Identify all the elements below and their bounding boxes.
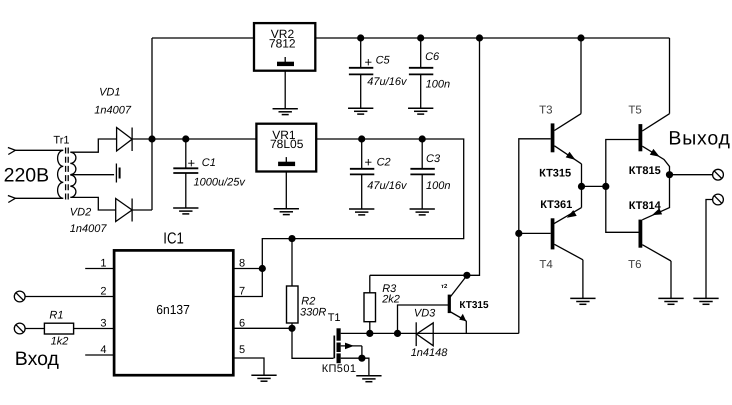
- svg-text:2k2: 2k2: [381, 294, 400, 306]
- wire secondary top tap to VD1 anode: [71, 139, 117, 152]
- svg-text:Вход: Вход: [15, 348, 60, 370]
- svg-text:+: +: [365, 55, 373, 70]
- node C2 junction: [358, 135, 365, 142]
- wire VD1 cathode to rail: [132, 138, 152, 140]
- svg-text:47u/16v: 47u/16v: [367, 180, 408, 192]
- node output junction: [666, 171, 673, 178]
- wire T4 base: [519, 232, 551, 234]
- transistor Q2 KT315 driver: [449, 276, 467, 334]
- wire pin 8: [233, 268, 262, 270]
- terminal output top: [713, 169, 724, 180]
- wire 220V input bottom lead with arrow: [8, 196, 63, 203]
- diode VD3: [416, 322, 433, 346]
- svg-text:КТ315: КТ315: [539, 167, 571, 179]
- svg-text:КТ814: КТ814: [629, 200, 662, 212]
- wire T2 base feed: [398, 305, 449, 333]
- wire drain output line: [370, 332, 519, 334]
- capacitor C6: [409, 38, 433, 108]
- wire pin 6 to T1 gate: [292, 328, 334, 358]
- wire VR1 ground stem: [285, 172, 287, 209]
- transistor Q6 KT814: [639, 175, 672, 299]
- node T3 collector junction: [577, 34, 584, 41]
- node T4 base junction: [515, 230, 522, 237]
- ground C2: [349, 209, 374, 215]
- svg-text:Tr1: Tr1: [53, 135, 69, 147]
- chassis ground symbol at center tap: [116, 164, 119, 183]
- svg-text:VD3: VD3: [414, 307, 436, 319]
- node T2 collector junction: [463, 272, 470, 279]
- svg-text:1: 1: [100, 258, 106, 270]
- transistor Q3 KT315: [551, 38, 582, 186]
- svg-text:1000u/25v: 1000u/25v: [194, 177, 247, 189]
- node T1 drain junction: [366, 330, 373, 337]
- ground C6: [408, 108, 433, 114]
- ground IC pin 5: [251, 375, 276, 381]
- capacitor C3: [410, 139, 434, 209]
- node T1 source junction: [358, 355, 365, 362]
- wire pin 1 stub: [85, 268, 114, 270]
- ground C5: [348, 108, 373, 114]
- ground VR1: [274, 209, 299, 215]
- svg-text:1n4007: 1n4007: [94, 105, 132, 117]
- ground T4 collector: [570, 298, 595, 304]
- transformer Tr1: [58, 148, 76, 202]
- wire output to terminal: [670, 174, 713, 176]
- wire R1 to pin 3: [74, 328, 115, 330]
- IC U1 optocoupler box: [114, 250, 233, 375]
- svg-text:100n: 100n: [426, 78, 450, 90]
- node T3 emitter junction: [578, 183, 585, 190]
- wire T5 T6 base rail: [606, 140, 639, 233]
- node pin 6 junction: [288, 325, 295, 332]
- svg-text:330R: 330R: [300, 307, 326, 319]
- node +12V feed junction: [476, 34, 483, 41]
- wire R3 top to +12V feed: [370, 38, 480, 275]
- node VD3 anode junction: [394, 330, 401, 337]
- svg-text:78L05: 78L05: [270, 137, 304, 151]
- svg-text:КТ315: КТ315: [459, 300, 489, 311]
- node rectified rail junction: [148, 135, 155, 142]
- resistor R3: [364, 275, 376, 333]
- capacitor C2: [350, 139, 374, 209]
- wire secondary center tap: [71, 174, 115, 176]
- node pin 8 junction: [259, 265, 266, 272]
- wire secondary bottom tap to VD2 anode: [71, 197, 116, 210]
- transistor Q5 KT815: [639, 38, 670, 175]
- svg-text:VD1: VD1: [99, 87, 120, 99]
- svg-text:1k2: 1k2: [51, 336, 69, 348]
- node output rail junction: [602, 183, 609, 190]
- svg-text:т2: т2: [441, 283, 448, 290]
- wire pin 2: [25, 296, 114, 298]
- svg-text:C5: C5: [376, 54, 391, 66]
- svg-text:T3: T3: [539, 105, 552, 117]
- ground T1 source: [356, 376, 381, 382]
- ground C1: [173, 208, 198, 214]
- svg-text:7: 7: [239, 286, 245, 298]
- svg-text:220В: 220В: [4, 165, 50, 187]
- svg-text:T1: T1: [328, 312, 341, 324]
- node C6 junction: [417, 34, 424, 41]
- svg-text:IC1: IC1: [163, 230, 184, 247]
- svg-text:КТ361: КТ361: [540, 199, 572, 211]
- transistor Q4 KT361: [551, 186, 583, 298]
- svg-text:R2: R2: [301, 295, 315, 307]
- ground T6 collector: [658, 298, 683, 304]
- ground VR2: [273, 109, 298, 115]
- terminal output bottom: [713, 194, 724, 205]
- wire pin 6: [233, 327, 292, 329]
- terminal input top: [14, 291, 25, 302]
- svg-text:C2: C2: [377, 156, 391, 168]
- node C5 junction: [357, 34, 364, 41]
- wire 220V input top lead with arrow: [8, 148, 63, 155]
- wire emitter junction link: [582, 185, 606, 187]
- wire +5V rail from VR1: [262, 139, 463, 269]
- regulator VR1: [256, 124, 316, 172]
- svg-text:2: 2: [100, 286, 106, 298]
- svg-text:7812: 7812: [269, 37, 296, 51]
- svg-text:6n137: 6n137: [156, 302, 190, 317]
- wire rectified rail vertical: [151, 38, 153, 210]
- svg-text:8: 8: [239, 258, 245, 270]
- wire terminal to R1: [25, 328, 44, 330]
- wire pin 7: [233, 269, 262, 297]
- wire T1 source to ground: [362, 358, 369, 376]
- diode VD1: [117, 128, 133, 152]
- svg-text:6: 6: [239, 317, 245, 329]
- capacitor C5: [349, 38, 373, 108]
- terminal input bottom: [14, 323, 25, 334]
- svg-text:T6: T6: [628, 259, 641, 271]
- svg-text:T5: T5: [628, 105, 641, 117]
- svg-text:1n4148: 1n4148: [411, 347, 449, 359]
- resistor R1: [44, 323, 73, 334]
- svg-text:47u/16v: 47u/16v: [367, 76, 408, 88]
- svg-text:4: 4: [100, 344, 106, 356]
- ground C3: [410, 209, 435, 215]
- wire +12V rail: [315, 37, 669, 39]
- svg-text:+: +: [188, 156, 196, 171]
- resistor R2: [287, 239, 299, 329]
- regulator VR2: [254, 23, 315, 71]
- wire pin 4 stub: [85, 354, 114, 356]
- wire VD2 cathode to rail: [132, 209, 152, 211]
- diode VD2: [116, 199, 132, 222]
- svg-text:1n4007: 1n4007: [70, 223, 108, 235]
- node R2 top junction: [288, 235, 295, 242]
- svg-text:R1: R1: [49, 309, 63, 321]
- wire rectified to VR1 input: [152, 138, 256, 140]
- wire output ground lead: [706, 200, 713, 299]
- transistor Q1 MOSFET KP501: [334, 328, 370, 363]
- svg-text:3: 3: [100, 317, 106, 329]
- svg-text:Выход: Выход: [668, 128, 730, 150]
- svg-text:C1: C1: [202, 157, 216, 169]
- capacitor C1: [173, 139, 198, 208]
- wire VR2 ground stem: [284, 71, 286, 109]
- svg-text:+: +: [365, 155, 373, 170]
- svg-text:5: 5: [239, 344, 245, 356]
- svg-text:T4: T4: [539, 259, 553, 271]
- wire pin 5 to ground: [233, 358, 264, 375]
- svg-text:КТ815: КТ815: [629, 165, 661, 177]
- svg-text:C6: C6: [425, 51, 440, 63]
- svg-text:VD2: VD2: [70, 207, 91, 219]
- svg-text:100n: 100n: [426, 180, 450, 192]
- wire T3 T4 base rail: [519, 139, 551, 334]
- node C3 junction: [419, 135, 426, 142]
- svg-text:КП501: КП501: [322, 363, 357, 375]
- node C1 junction: [182, 135, 189, 142]
- wire VR2 input: [152, 37, 254, 39]
- svg-text:C3: C3: [426, 153, 441, 165]
- ground output terminal: [693, 298, 718, 304]
